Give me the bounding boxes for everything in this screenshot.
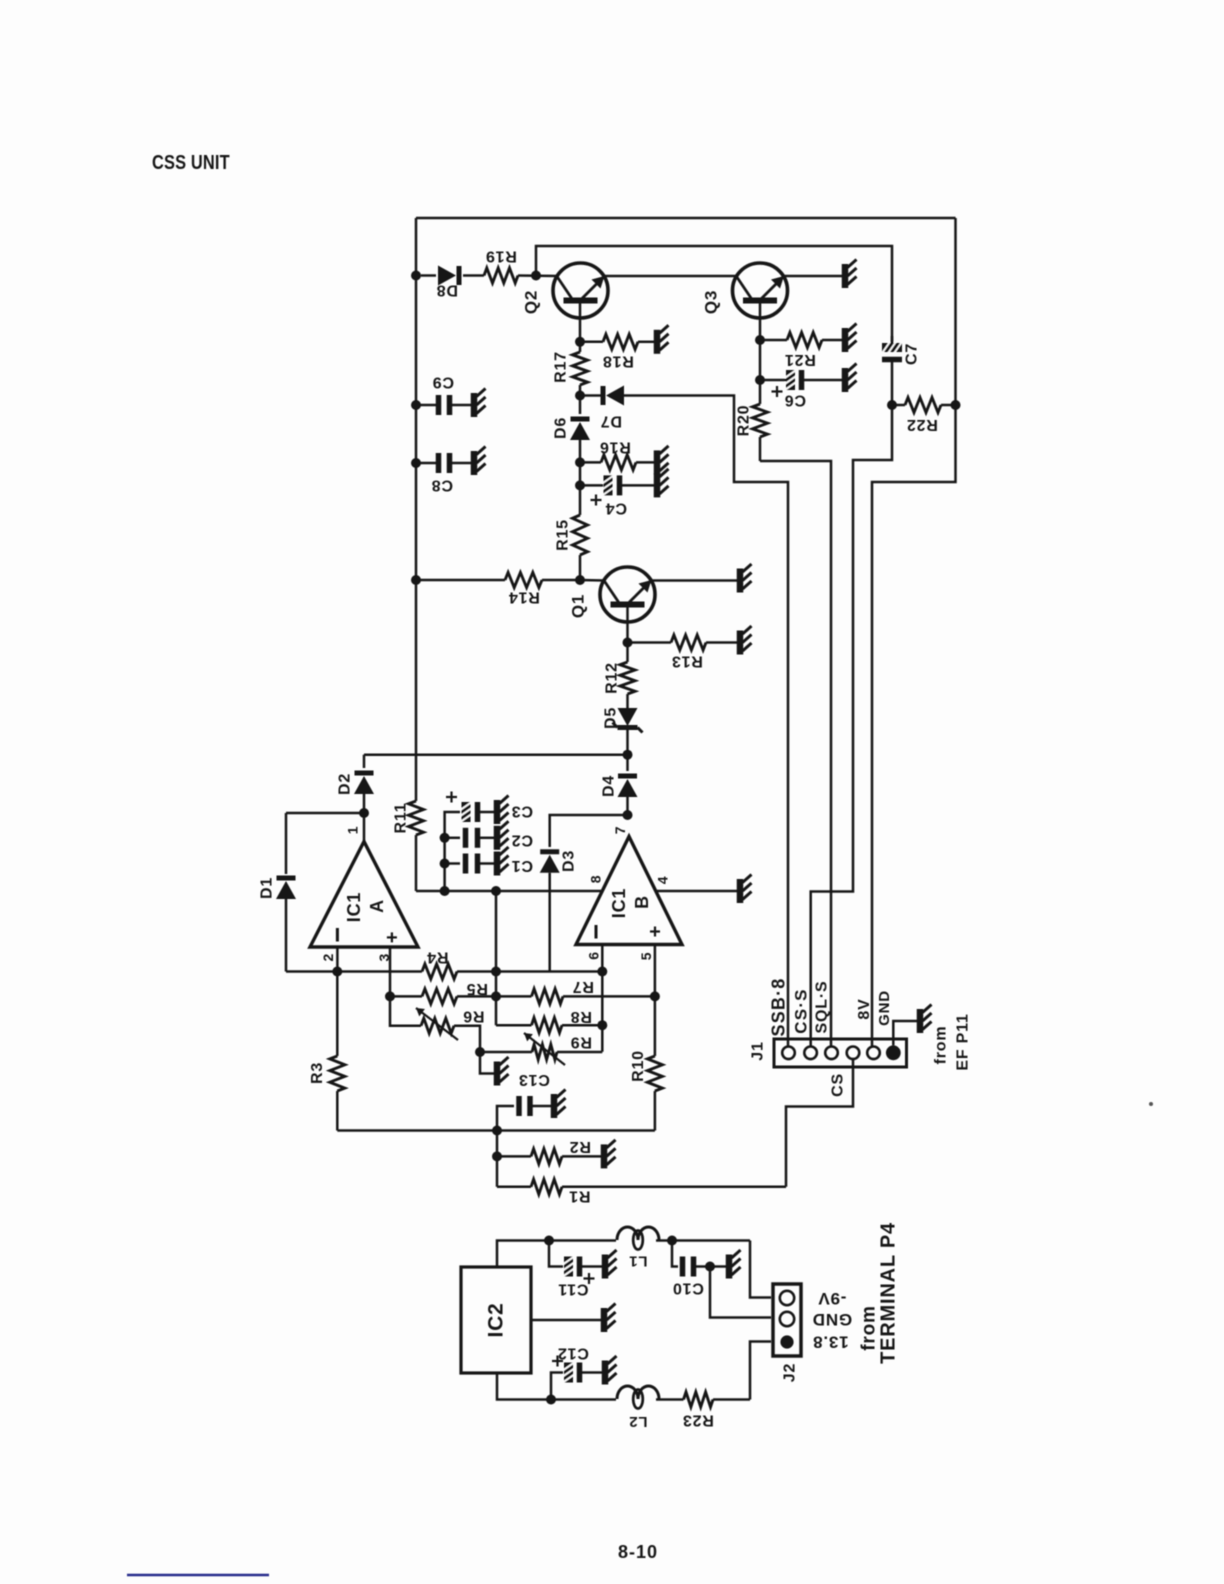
svg-text:Q2: Q2 xyxy=(522,290,541,314)
svg-text:R17: R17 xyxy=(553,351,570,383)
wire IC2 top xyxy=(497,1241,616,1268)
wire D7 to SSB-8 bus xyxy=(624,396,788,1047)
svg-text:SSB·8: SSB·8 xyxy=(769,977,789,1036)
ground C6 xyxy=(842,368,849,392)
wire Q1 to ground xyxy=(651,579,737,582)
node C2 xyxy=(440,833,450,843)
resistor R19 xyxy=(463,274,484,277)
ground IC1B pin4 xyxy=(737,879,744,903)
node Q1 base / R12 / R13 xyxy=(623,638,633,648)
node pin6 top xyxy=(597,967,607,977)
svg-text:R18: R18 xyxy=(602,353,634,370)
svg-text:R7: R7 xyxy=(572,978,594,995)
J2 pin 3 13.8 filled xyxy=(780,1335,793,1348)
svg-text:J2: J2 xyxy=(782,1363,799,1382)
resistor R10 xyxy=(647,1056,662,1091)
transistor Q2 xyxy=(553,263,608,318)
wire Q3 emitter to ground xyxy=(784,275,843,278)
wire R6 to R9 row xyxy=(454,1026,480,1052)
node R19/Q2 xyxy=(518,274,557,277)
svg-text:C12: C12 xyxy=(557,1345,589,1362)
svg-text:5: 5 xyxy=(638,952,654,961)
ground C8 xyxy=(471,451,478,475)
ground J1 GND xyxy=(917,1009,924,1033)
wire Q3 base stem xyxy=(759,301,762,341)
svg-text:R11: R11 xyxy=(393,803,410,834)
node Q2 base / R17 / R18 xyxy=(575,337,585,347)
capacitor C12 xyxy=(551,1373,563,1400)
svg-text:CSS UNIT: CSS UNIT xyxy=(152,151,230,174)
resistor R4 xyxy=(422,964,457,979)
resistor R5 xyxy=(390,995,422,998)
svg-text:A: A xyxy=(367,899,387,913)
svg-text:R3: R3 xyxy=(309,1062,326,1084)
diode D7 xyxy=(580,394,601,397)
node D6/R16 xyxy=(575,457,585,467)
svg-text:SQL·S: SQL·S xyxy=(814,981,831,1034)
wire to J2 pin3 xyxy=(750,1342,771,1400)
svg-text:D3: D3 xyxy=(561,850,578,872)
wire pin3 to R6 xyxy=(390,996,421,1025)
resistor R2 xyxy=(497,1155,531,1158)
diode D6 xyxy=(579,396,582,415)
wire pin3 stub xyxy=(389,947,392,996)
svg-text:from: from xyxy=(933,1026,950,1065)
svg-text:D7: D7 xyxy=(600,413,622,430)
svg-text:8: 8 xyxy=(587,875,603,884)
svg-text:R8: R8 xyxy=(570,1008,592,1025)
J2 pin 1 -9V xyxy=(780,1291,794,1305)
ground C11 xyxy=(602,1255,609,1279)
resistor R14 xyxy=(416,579,505,582)
wire R1 to CS pin xyxy=(786,1060,853,1187)
wire R20 to SQL-S bus xyxy=(760,461,831,1046)
resistor R23 xyxy=(656,1398,684,1401)
svg-text:C13: C13 xyxy=(518,1071,550,1088)
op-amp IC1 A xyxy=(310,842,418,948)
node C11 tap xyxy=(544,1236,554,1246)
svg-text:8V: 8V xyxy=(856,998,873,1019)
svg-text:GND: GND xyxy=(876,990,893,1026)
wire right rail (8V side) xyxy=(872,218,956,1046)
J1 pin 4 CS xyxy=(847,1047,860,1060)
resistor R12 xyxy=(626,643,629,663)
svg-text:R13: R13 xyxy=(671,653,703,670)
svg-text:J1: J1 xyxy=(750,1041,767,1060)
svg-text:L2: L2 xyxy=(628,1413,647,1430)
node C12 tap xyxy=(546,1395,556,1405)
svg-text:D6: D6 xyxy=(553,417,570,439)
wire to Q1 xyxy=(580,579,604,582)
svg-text:R5: R5 xyxy=(466,980,488,997)
svg-text:D2: D2 xyxy=(337,773,354,795)
resistor R20 xyxy=(753,404,768,437)
wire R4R5 vertical xyxy=(495,891,498,1025)
capacitor C11 xyxy=(549,1241,563,1267)
node pin2 xyxy=(332,967,342,977)
capacitor C3 xyxy=(461,802,471,822)
J1 pin 6 GND filled xyxy=(886,1045,901,1060)
svg-text:C2: C2 xyxy=(511,832,533,849)
svg-text:R19: R19 xyxy=(485,248,517,265)
node IC1B pin7 xyxy=(623,810,633,820)
resistor R7 xyxy=(532,989,564,1004)
node C13 row E xyxy=(492,1126,502,1136)
svg-text:IC1: IC1 xyxy=(344,892,364,922)
svg-text:CS: CS xyxy=(830,1073,847,1097)
wire left rail upper xyxy=(415,218,418,801)
ground Q1 xyxy=(737,569,744,593)
ground R6 tap xyxy=(494,1062,501,1086)
svg-text:R10: R10 xyxy=(630,1050,647,1082)
svg-text:7: 7 xyxy=(612,826,628,835)
svg-text:R22: R22 xyxy=(906,416,938,433)
svg-text:4: 4 xyxy=(654,876,670,885)
svg-text:C4: C4 xyxy=(605,500,627,517)
wire row E xyxy=(337,1129,655,1132)
resistor R22 xyxy=(892,404,905,407)
ground R18 xyxy=(654,330,661,354)
node C4 xyxy=(575,480,585,490)
resistor R18 xyxy=(580,341,603,344)
node D2 bottom xyxy=(359,808,369,818)
resistor R8 xyxy=(496,1024,532,1027)
resistor R17 xyxy=(573,352,588,385)
node R15/R14/Q1 xyxy=(575,575,585,585)
svg-text:6: 6 xyxy=(586,951,602,960)
ground C12 xyxy=(602,1361,609,1385)
svg-text:R16: R16 xyxy=(599,439,631,456)
wire pin5 stub xyxy=(654,945,657,1057)
svg-text:Q3: Q3 xyxy=(702,290,721,314)
node R4 bus top xyxy=(491,886,501,896)
node R22 right xyxy=(951,400,961,410)
svg-text:GND: GND xyxy=(812,1310,852,1329)
capacitor C2 xyxy=(445,837,460,840)
resistor R21 xyxy=(760,339,787,342)
node cap bus bottom xyxy=(440,886,450,896)
J1 pin 3 SQL-S xyxy=(825,1047,838,1060)
diode D4 xyxy=(626,755,629,771)
ground C10 xyxy=(726,1255,733,1279)
capacitor C6 xyxy=(760,379,786,382)
wire pin7 feedback via D3 xyxy=(550,815,628,847)
node R17/D7/D6 xyxy=(575,391,585,401)
connector J2 body xyxy=(773,1284,801,1356)
svg-text:C8: C8 xyxy=(431,477,453,494)
inductor L2 xyxy=(617,1386,638,1399)
svg-text:1: 1 xyxy=(344,826,360,835)
wire Q1 base stem xyxy=(626,605,629,643)
svg-text:R1: R1 xyxy=(568,1188,590,1205)
wire C7 node to CS-S bus xyxy=(811,405,892,1046)
plus marker IC1A pin3 xyxy=(387,936,397,938)
diode D2 xyxy=(363,755,366,768)
wire row pin2 xyxy=(286,970,422,973)
svg-text:TERMINAL P4: TERMINAL P4 xyxy=(878,1222,900,1364)
wire pin2 stub xyxy=(336,947,339,972)
ground R13 xyxy=(737,631,744,655)
wire cap bus xyxy=(445,812,460,891)
node C6 xyxy=(755,375,765,385)
node Q3 base / R21 xyxy=(755,335,765,345)
ground IC2 mid xyxy=(601,1308,608,1332)
svg-text:D4: D4 xyxy=(601,775,618,797)
node pin3/R5 xyxy=(385,991,395,1001)
J1 pin 1 SSB-8 xyxy=(782,1047,795,1060)
svg-text:B: B xyxy=(632,895,652,909)
ground R21 xyxy=(842,328,849,352)
ground C9 xyxy=(471,393,478,417)
inductor L1 xyxy=(617,1227,638,1240)
diode D3 xyxy=(540,849,559,854)
svg-text:D1: D1 xyxy=(259,877,276,899)
minus marker IC1A pin2 xyxy=(336,928,339,942)
ground C1 xyxy=(494,852,501,876)
wire to J2 pin1 xyxy=(750,1241,771,1298)
speck artifact xyxy=(1149,1102,1153,1106)
resistor R15 xyxy=(579,485,582,515)
capacitor C1 xyxy=(445,862,460,865)
wire outer top edge xyxy=(416,217,956,220)
resistor R13 xyxy=(628,641,672,644)
wire IC2 bottom xyxy=(497,1373,616,1400)
resistor R6 (variable) xyxy=(421,1018,454,1033)
ground C4 xyxy=(654,473,661,497)
wire Q2 to Q3 xyxy=(604,275,737,278)
connector J1 body xyxy=(774,1039,907,1067)
ground R2 xyxy=(601,1144,608,1168)
wire D2 node to D1 branch xyxy=(286,812,364,815)
svg-text:R15: R15 xyxy=(555,519,572,551)
diode D8 xyxy=(421,274,436,277)
J2 pin 2 GND xyxy=(780,1312,794,1326)
node pin5/R7 xyxy=(650,991,660,1001)
ic IC2 box xyxy=(461,1267,531,1373)
resistor R9 (variable) xyxy=(480,1051,532,1054)
svg-text:from: from xyxy=(859,1305,880,1350)
svg-text:R12: R12 xyxy=(604,662,621,694)
diode D5 (zener) xyxy=(626,694,629,708)
wire pin1 xyxy=(363,813,366,842)
node D8 left xyxy=(411,271,421,281)
wire C10 node to J2 pin2 xyxy=(710,1267,771,1318)
svg-text:R4: R4 xyxy=(426,949,448,966)
svg-text:R23: R23 xyxy=(682,1412,714,1429)
svg-text:C7: C7 xyxy=(904,343,921,365)
node R2 xyxy=(492,1151,502,1161)
svg-text:C3: C3 xyxy=(511,803,533,820)
svg-text:EF P11: EF P11 xyxy=(955,1013,972,1070)
wire pin8 row xyxy=(416,890,603,893)
svg-text:R6: R6 xyxy=(462,1008,484,1025)
capacitor C7 xyxy=(891,336,894,343)
svg-text:3: 3 xyxy=(376,953,392,962)
minus marker IC1B pin6 xyxy=(595,925,598,939)
svg-text:C6: C6 xyxy=(784,392,806,409)
svg-text:R9: R9 xyxy=(570,1034,592,1051)
blue scan line xyxy=(127,1574,269,1577)
svg-text:C10: C10 xyxy=(672,1280,704,1297)
wire IC2 mid pin to ground xyxy=(531,1319,601,1322)
wire second top line from Q2 node to C7 xyxy=(536,246,892,344)
svg-text:D8: D8 xyxy=(436,282,458,299)
svg-text:IC1: IC1 xyxy=(609,888,629,918)
svg-text:C1: C1 xyxy=(511,857,533,874)
capacitor C8 xyxy=(411,458,421,468)
wire R6 tap to ground xyxy=(480,1052,494,1074)
resistor R16 xyxy=(580,461,601,464)
resistor R11 xyxy=(409,801,424,835)
node D5/D4 row xyxy=(623,750,633,760)
ground Q3 xyxy=(842,264,849,288)
node R5/R7 junction xyxy=(491,991,501,1001)
resistor R1 xyxy=(497,1186,531,1189)
svg-text:2: 2 xyxy=(320,953,336,962)
wire pin4 to ground xyxy=(655,890,737,893)
ground C13 xyxy=(551,1094,558,1118)
svg-text:R20: R20 xyxy=(736,405,753,437)
capacitor C10 xyxy=(672,1241,678,1267)
node R4/R5 junction top xyxy=(491,967,501,977)
J1 pin 5 8V xyxy=(867,1047,880,1060)
resistor R3 xyxy=(336,972,339,1057)
svg-text:R2: R2 xyxy=(569,1138,591,1155)
node C1 xyxy=(440,859,450,869)
svg-text:8-10: 8-10 xyxy=(618,1542,658,1562)
svg-text:L1: L1 xyxy=(628,1253,647,1270)
wire pin6 stub xyxy=(601,945,604,1052)
ground C3 xyxy=(494,800,501,824)
capacitor C4 xyxy=(580,484,603,487)
transistor Q1 xyxy=(600,567,655,622)
svg-text:C9: C9 xyxy=(432,374,454,391)
node L1 right xyxy=(667,1236,677,1246)
svg-text:CS·S: CS·S xyxy=(792,988,811,1033)
wire Q2 base stem xyxy=(579,301,582,342)
svg-text:13.8: 13.8 xyxy=(812,1333,848,1352)
op-amp IC1 B xyxy=(576,837,682,945)
capacitor C13 xyxy=(497,1106,514,1131)
svg-text:R14: R14 xyxy=(508,589,540,606)
node C10 right xyxy=(705,1262,715,1272)
plus marker IC1B pin5 xyxy=(650,930,660,932)
svg-text:R21: R21 xyxy=(784,351,816,368)
ground C2 xyxy=(494,826,501,850)
node R6/R9 xyxy=(475,1047,485,1057)
svg-text:-9V: -9V xyxy=(818,1289,847,1308)
ground R16 xyxy=(654,450,661,474)
svg-text:D5: D5 xyxy=(603,707,620,729)
node R22 left xyxy=(887,400,897,410)
svg-text:IC2: IC2 xyxy=(485,1302,508,1337)
transistor Q3 xyxy=(733,263,788,318)
diode D1 xyxy=(285,813,288,874)
svg-text:Q1: Q1 xyxy=(569,594,588,618)
node R14 left xyxy=(411,575,421,585)
J1 pin 2 CS-S xyxy=(804,1047,817,1060)
wire pin7 row xyxy=(364,753,628,756)
svg-text:C11: C11 xyxy=(558,1281,589,1298)
wire J1 GND pin to ground xyxy=(893,1021,917,1045)
node R8/pin6 xyxy=(597,1020,607,1030)
wire left rail lower xyxy=(415,835,418,891)
capacitor C9 xyxy=(411,400,421,410)
